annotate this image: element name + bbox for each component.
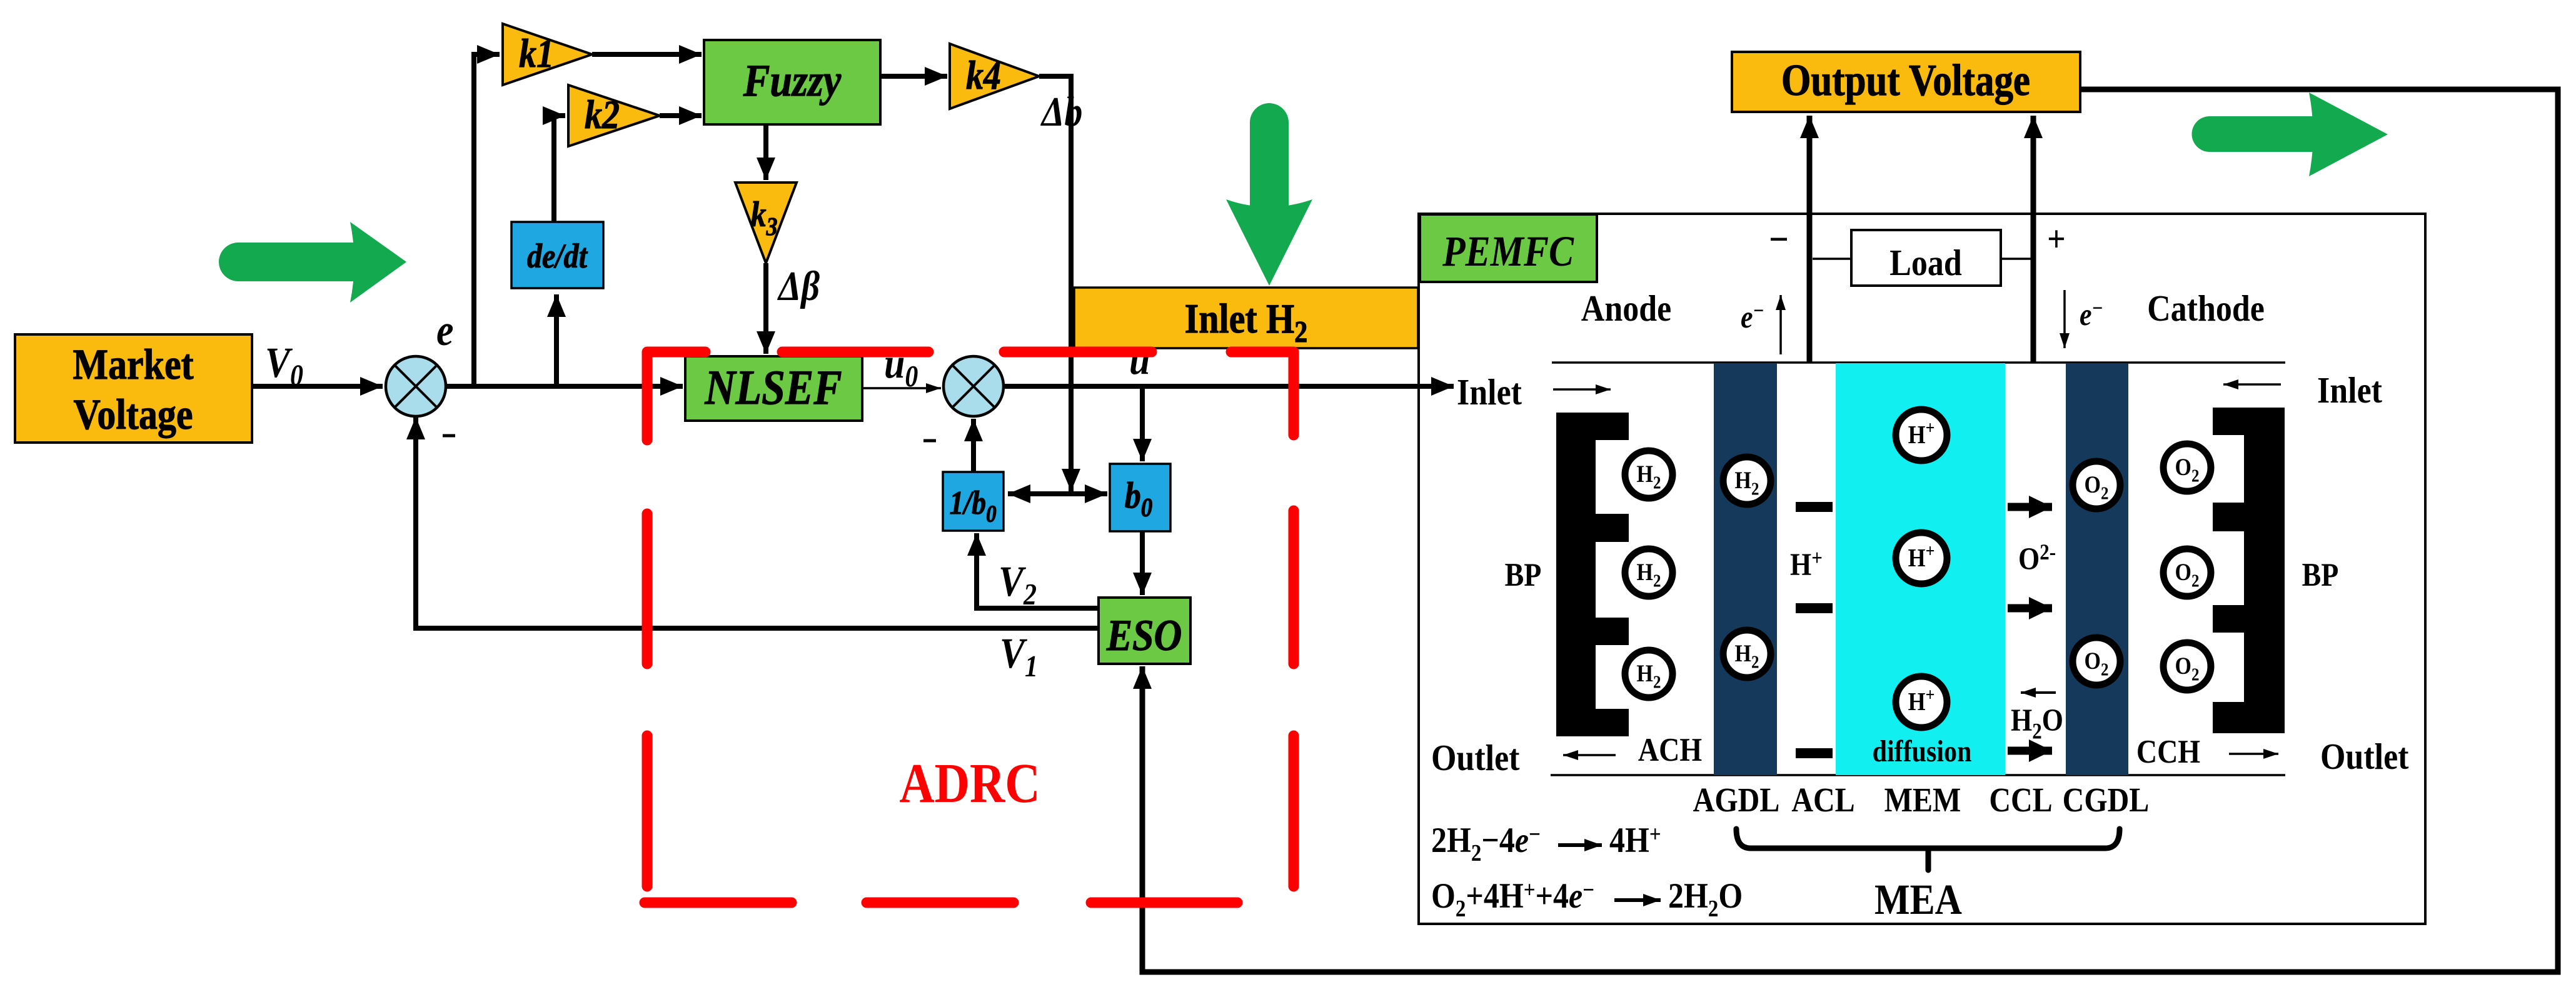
wire u tip into PEMFC Inlet (redrawn above box fill) bbox=[1413, 384, 1454, 389]
minus sign at S2 bbox=[923, 439, 936, 443]
svg-text:Load: Load bbox=[1889, 243, 1962, 284]
ADRC dashed border top dash 2 bbox=[782, 347, 928, 358]
svg-text:Inlet: Inlet bbox=[2317, 370, 2382, 411]
svg-text:ADRC: ADRC bbox=[899, 753, 1040, 814]
summing junction S2 bbox=[943, 356, 1004, 416]
block Inlet H2 bbox=[1074, 288, 1418, 349]
gain k4 bbox=[950, 44, 1039, 109]
wire Delta-b: k4 tip right then down to b0/1-b0 link bbox=[1039, 76, 1071, 491]
svg-text:MEM: MEM bbox=[1884, 781, 1961, 819]
anode inlet flow small arrow bbox=[1553, 388, 1611, 391]
ADRC dashed border bottom dash 1 bbox=[645, 898, 792, 908]
block 1/b0 bbox=[943, 472, 1004, 531]
H2O back-diffusion small arrow bbox=[2021, 691, 2056, 694]
wire load left bbox=[1813, 258, 1851, 260]
wire load right bbox=[2001, 258, 2033, 260]
wire u to b0 input bbox=[1140, 386, 1145, 461]
cell top boundary line bbox=[1552, 361, 2285, 364]
wire k2 to Fuzzy bbox=[660, 113, 702, 118]
wire V1 feedback: ESO left to below S1 then up into S1 minus input bbox=[416, 417, 1099, 628]
wire Fuzzy to k3 bbox=[763, 124, 768, 180]
ADRC dashed border bottom dash 3 bbox=[1091, 898, 1237, 908]
gain k1 bbox=[503, 24, 592, 85]
svg-text:de/dt: de/dt bbox=[527, 238, 588, 276]
MEA brace bbox=[1736, 829, 2120, 870]
block PEMFC label bbox=[1420, 214, 1597, 282]
wire u: summing junction S2 to PEMFC Inlet bbox=[1004, 384, 1454, 389]
equation arrow cathode bbox=[1614, 898, 1661, 902]
block Load bbox=[1851, 230, 2001, 286]
ADRC dashed border right dash 2 bbox=[1289, 511, 1299, 664]
layer AGDL bar bbox=[1714, 363, 1777, 775]
ACL catalyst marks bbox=[1796, 502, 1833, 758]
svg-text:ESO: ESO bbox=[1106, 611, 1182, 660]
svg-text:Inlet: Inlet bbox=[1457, 372, 1522, 413]
ADRC dashed border top-right corner bbox=[1231, 352, 1294, 435]
wire e to de/dt input bbox=[554, 294, 559, 386]
cathode bipolar plate comb bbox=[2213, 408, 2285, 733]
wire e to gain k1 bbox=[474, 54, 500, 386]
layer CGDL bar bbox=[2066, 363, 2128, 775]
svg-text:BP: BP bbox=[1505, 556, 1542, 593]
electron up arrow anode bbox=[1779, 295, 1782, 354]
svg-text:ACL: ACL bbox=[1791, 781, 1854, 819]
svg-text:ACH: ACH bbox=[1638, 731, 1702, 768]
block b0 bbox=[1110, 464, 1170, 531]
block Fuzzy bbox=[704, 40, 880, 124]
svg-text:Cathode: Cathode bbox=[2147, 288, 2265, 329]
svg-text:Market: Market bbox=[73, 340, 194, 388]
svg-text:−: − bbox=[1769, 217, 1789, 262]
summing junction S1 bbox=[386, 356, 446, 416]
svg-text:k1: k1 bbox=[519, 31, 554, 76]
svg-text:MEA: MEA bbox=[1874, 875, 1962, 923]
svg-text:BP: BP bbox=[2302, 556, 2339, 593]
gain k2 bbox=[568, 85, 660, 146]
block NLSEF bbox=[685, 356, 862, 421]
gain k3 (downward) bbox=[735, 183, 797, 263]
anode terminal wire to Output Voltage bbox=[1807, 116, 1813, 363]
ADRC dashed border left dash 2 bbox=[642, 514, 653, 664]
svg-text:2H2O: 2H2O bbox=[1668, 876, 1743, 922]
ADRC dashed border left dash 3 bbox=[642, 736, 653, 886]
H+ ion circles in membrane bbox=[1896, 409, 1947, 728]
svg-text:AGDL: AGDL bbox=[1693, 781, 1780, 819]
cathode inlet flow small arrow bbox=[2223, 383, 2281, 386]
ADRC dashed border right dash 3 bbox=[1289, 736, 1299, 886]
wire V2: ESO left to 1/b0 bottom bbox=[977, 533, 1099, 608]
wire NLSEF to S2 (thin) bbox=[862, 387, 941, 389]
svg-text:u: u bbox=[1129, 335, 1150, 383]
wire V0: Market Voltage to summing junction S1 bbox=[252, 384, 383, 389]
svg-text:Δβ: Δβ bbox=[777, 263, 820, 309]
svg-text:CCL: CCL bbox=[1989, 781, 2052, 819]
PEMFC outer box bbox=[1419, 214, 2425, 924]
svg-text:Outlet: Outlet bbox=[1431, 738, 1520, 779]
wire Delta-beta: k3 tip down to NLSEF top bbox=[763, 263, 768, 354]
svg-text:CGDL: CGDL bbox=[2063, 781, 2150, 819]
wire double arrow 1/b0 and b0 bbox=[1008, 491, 1107, 496]
wire Fuzzy to k4 bbox=[880, 74, 947, 79]
wire k1 to Fuzzy bbox=[592, 52, 702, 57]
svg-text:Outlet: Outlet bbox=[2320, 736, 2409, 778]
O2 molecule circles cathode bbox=[2073, 444, 2211, 690]
green arrow right (output flow) bbox=[2192, 93, 2388, 176]
block de/dt bbox=[511, 222, 603, 288]
svg-text:diffusion: diffusion bbox=[1873, 734, 1972, 768]
ADRC dashed border top-left corner bbox=[647, 352, 705, 440]
svg-text:Δb: Δb bbox=[1040, 88, 1082, 135]
anode outlet flow small arrow bbox=[1563, 754, 1616, 756]
green arrow down (Inlet H2 flow) bbox=[1226, 103, 1312, 286]
thick ion transfer arrows MEM to CCL bbox=[2008, 507, 2052, 751]
cathode outlet flow small arrow bbox=[2229, 753, 2278, 755]
svg-text:k4: k4 bbox=[966, 53, 1001, 98]
svg-text:Anode: Anode bbox=[1581, 288, 1671, 329]
svg-text:Fuzzy: Fuzzy bbox=[743, 55, 842, 106]
wire b0 to ESO bbox=[1140, 531, 1145, 595]
svg-text:CCH: CCH bbox=[2136, 733, 2200, 770]
svg-text:k2: k2 bbox=[585, 93, 620, 138]
svg-text:NLSEF: NLSEF bbox=[704, 361, 842, 414]
svg-text:PEMFC: PEMFC bbox=[1442, 227, 1574, 275]
svg-text:Inlet H2: Inlet H2 bbox=[1185, 295, 1308, 348]
ADRC dashed border top dash 3 bbox=[1004, 347, 1152, 358]
green arrow left (input flow) bbox=[219, 222, 406, 303]
svg-text:2H2−4e−: 2H2−4e− bbox=[1431, 820, 1541, 866]
wire e: summing junction S1 to NLSEF bbox=[446, 384, 683, 389]
H2 molecule circles anode channel bbox=[1625, 451, 1771, 698]
wire 1/b0 to S2 minus input bbox=[971, 419, 976, 472]
block Market Voltage bbox=[15, 334, 252, 443]
block ESO bbox=[1099, 598, 1190, 664]
minus sign at S1 bbox=[443, 434, 455, 438]
wire de/dt to gain k2 bbox=[554, 116, 565, 222]
layer MEM bar bbox=[1836, 363, 2005, 775]
svg-text:Voltage: Voltage bbox=[73, 390, 193, 438]
block Output Voltage bbox=[1732, 52, 2080, 112]
cathode terminal wire to Output Voltage bbox=[2031, 116, 2036, 363]
anode bipolar plate comb bbox=[1556, 413, 1629, 736]
svg-text:+: + bbox=[2047, 219, 2066, 260]
electron down arrow cathode bbox=[2063, 290, 2066, 348]
svg-text:e: e bbox=[436, 306, 454, 355]
ADRC dashed border bottom dash 2 bbox=[867, 898, 1014, 908]
cell bottom boundary line bbox=[1551, 774, 2285, 776]
svg-text:Output Voltage: Output Voltage bbox=[1781, 56, 2030, 105]
wire output voltage feedback to ESO bottom bbox=[1142, 89, 2558, 972]
equation arrow anode bbox=[1558, 843, 1602, 847]
